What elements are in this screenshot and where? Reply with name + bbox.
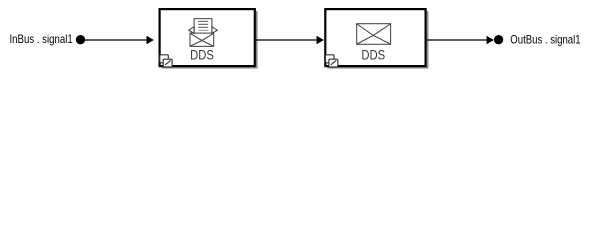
svg-text:OutBus . signal1: OutBus . signal1: [510, 32, 581, 46]
svg-text:InBus . signal1: InBus . signal1: [10, 32, 73, 46]
svg-text:DDS: DDS: [190, 47, 214, 63]
svg-text:DDS: DDS: [361, 47, 385, 63]
